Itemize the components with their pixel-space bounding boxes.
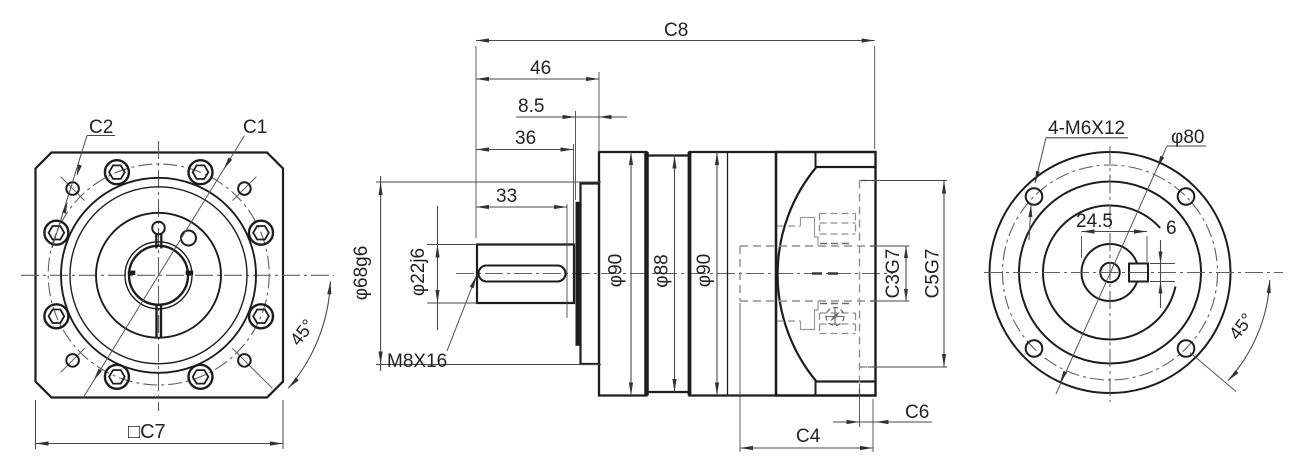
dim phi90 first [630,152,632,396]
small mounting hole 4 (C2 type) [238,354,251,367]
svg-text:φ22j6: φ22j6 [408,248,429,296]
dim 36 [573,144,575,245]
45 deg dimension arc (left view) [288,281,330,388]
svg-text:φ90: φ90 [606,254,627,287]
45deg tick through top-left small hole [61,177,85,201]
thick divider ring [644,152,649,396]
divider 2 [688,152,692,396]
bore keyway mark left [128,271,136,276]
bore keyway mark right [186,271,194,276]
svg-text:□C7: □C7 [128,421,166,443]
output block outline [776,152,876,396]
bore circle [129,246,188,305]
hex socket screw hole 3 [105,160,129,184]
45deg tick through top-right small hole [232,177,256,201]
pin hole C1 target [181,231,196,246]
input hub circle [1082,244,1139,301]
svg-text:C5G7: C5G7 [923,249,944,299]
dim C4 [739,303,741,452]
output block shoulder top [815,152,817,167]
pilot ring phi68 [581,184,600,365]
bolt circle dash-dot r112 [48,164,269,385]
flange outer circle [61,178,256,373]
gearbox body section 1 (phi90) [599,152,647,396]
svg-text:M8X16: M8X16 [387,351,447,372]
small mounting hole 1 (C2 type) [66,182,79,195]
hidden shaft end dark dashes [812,272,838,275]
dim 46 [598,72,600,152]
dim phi88 [674,156,676,393]
hidden clamp hub bottom dashed [777,320,801,322]
hidden clamp screw top dashed [820,213,856,215]
svg-text:46: 46 [530,58,551,79]
big bore arc [778,168,816,382]
hidden clamp bore C3 dashed [739,246,741,301]
body section 3 (phi90) [690,152,777,396]
keyway square [1129,264,1148,282]
hidden clamp hub top dashed [777,225,801,227]
svg-text:4-M6X12: 4-M6X12 [1048,118,1125,139]
motor pilot circle with gap [1043,205,1176,339]
left view: square mounting flange outline [36,153,284,398]
dim phi68g6 [376,181,601,183]
M6 tapped hole 2 [1178,188,1195,205]
hex socket screw hole 8 [249,304,273,328]
output block shoulder bottom [815,382,817,396]
flange inner circle [70,187,247,364]
dim C6 [859,384,861,427]
dim 24.5 [1081,236,1083,258]
C1 diametral line through center [83,136,245,399]
hex socket screw hole 1 [249,221,273,245]
45deg tick through bottom-left small hole [61,348,85,372]
hex socket screw hole 6 [105,365,129,389]
bottom clamp slit [155,305,157,338]
svg-text:24.5: 24.5 [1076,211,1113,232]
rear flange outer circle [990,152,1231,393]
hidden clamp screw bottom dashed [820,333,856,335]
svg-text:33: 33 [496,186,517,207]
45deg tick through bottom-right small hole + extension to 45deg arc [232,348,272,388]
left view vertical centerline [158,141,160,411]
45 deg radial line (right view) [1190,353,1236,392]
dim C3G7 [870,245,910,247]
dim phi22j6 [427,244,477,246]
hex socket screw hole 5 [44,304,68,328]
body section 2 (phi88) [647,154,690,156]
right view vertical centerline [1109,146,1111,402]
hex socket screw hole 2 [189,160,213,184]
rear inner circle [1019,182,1201,364]
bolt circle dash-dot phi80 [1003,165,1218,380]
hex socket screw hole 4 [44,221,68,245]
C7 dimension [35,400,37,449]
M6 tapped hole 3 [1026,340,1043,357]
keyway slot to pin [155,234,157,249]
dim C8 [475,46,477,238]
svg-text:φ88: φ88 [652,254,673,287]
M6 tapped hole 1 [1026,188,1043,205]
svg-text:φ90: φ90 [694,254,715,287]
svg-text:C6: C6 [905,402,929,423]
svg-text:8.5: 8.5 [518,96,544,117]
middle view centerline [456,273,893,275]
dim C5G7 [861,180,947,182]
right view horizontal centerline [984,272,1283,274]
small mounting hole 3 (C2 type) [66,354,79,367]
svg-text:C3G7: C3G7 [883,249,904,299]
svg-text:φ68g6: φ68g6 [351,246,372,301]
M6 tapped hole 4 [1178,340,1195,357]
input flange plate [575,203,580,346]
output boss circle [96,213,221,338]
svg-text:C2: C2 [89,117,113,138]
dim 8.5 [516,116,627,118]
clamp hub circle [125,242,192,309]
svg-text:C4: C4 [796,426,821,447]
clamp screw position symbol [826,308,844,326]
svg-text:36: 36 [515,128,536,149]
joint line [727,152,729,396]
shaft keyway slot [479,266,566,282]
clamp screw pin circle [152,222,165,235]
svg-text:C1: C1 [243,117,267,138]
dim phi90 second [716,152,718,396]
left view horizontal centerline [21,274,334,276]
hex socket screw hole 7 [189,365,213,389]
svg-text:C8: C8 [664,20,688,41]
svg-text:6: 6 [1166,218,1177,239]
small mounting hole 2 (C2 type) [238,182,251,195]
dim 6 [1150,263,1175,265]
C2 leader through hole [52,136,87,249]
center hole [1100,263,1119,282]
45 deg dimension arc (right view) [1228,280,1270,381]
svg-text:φ80: φ80 [1171,127,1204,148]
dim 33 [566,204,568,318]
hidden motor pilot bore C5 dashed [859,181,861,395]
input shaft [477,245,574,304]
